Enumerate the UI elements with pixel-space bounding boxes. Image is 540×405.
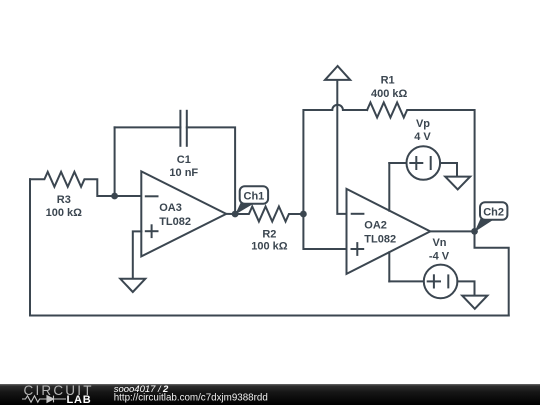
ground (OA3 non-inverting input)	[120, 279, 145, 292]
svg-text:100 kΩ: 100 kΩ	[46, 207, 83, 219]
op-amp OA2	[347, 189, 431, 274]
flag Ch1	[235, 186, 268, 214]
svg-text:OA3: OA3	[159, 202, 182, 214]
svg-text:OA2: OA2	[364, 220, 387, 232]
wire bottom	[30, 315, 509, 317]
footer bar	[0, 384, 540, 405]
node junction dot at OA3 inverting input	[111, 193, 118, 200]
svg-text:Vp: Vp	[416, 118, 430, 130]
wire OA2 top supply pin	[388, 163, 390, 211]
svg-text:-4 V: -4 V	[429, 251, 450, 263]
svg-text:Vn: Vn	[432, 237, 446, 249]
wire feedback up from node with hop over supply stem	[303, 105, 367, 214]
capacitor C1	[180, 111, 186, 146]
op-amp OA3	[141, 171, 226, 256]
wire to OA3 minus input	[115, 195, 142, 197]
svg-text:400 kΩ: 400 kΩ	[371, 88, 408, 100]
ground (Vp negative terminal)	[445, 177, 470, 190]
resistor R2	[235, 207, 303, 222]
svg-text:4 V: 4 V	[414, 131, 431, 143]
logo squiggle resistor	[22, 395, 45, 401]
wire OA3 plus input to ground	[133, 231, 142, 278]
wire to OA2 plus input	[303, 214, 346, 249]
svg-text:10 nF: 10 nF	[169, 167, 198, 179]
node junction dot after R2	[300, 211, 307, 218]
wire OA2 bottom supply pin	[388, 252, 390, 281]
wire right return to output node	[475, 231, 509, 315]
node Ch1 output dot	[232, 211, 239, 218]
svg-text:R2: R2	[262, 228, 276, 240]
svg-text:R1: R1	[381, 74, 395, 86]
svg-text:LAB: LAB	[67, 394, 92, 405]
svg-text:100 kΩ: 100 kΩ	[251, 240, 288, 252]
supply flag VCC arrow	[325, 66, 350, 214]
wire OA3 output	[226, 213, 235, 215]
svg-text:Ch2: Ch2	[483, 206, 504, 218]
ground (Vn negative terminal)	[462, 296, 487, 309]
voltage source Vn	[389, 265, 474, 299]
svg-text:TL082: TL082	[364, 234, 396, 246]
svg-text:R3: R3	[57, 194, 71, 206]
wire feedback loop left/top	[114, 127, 116, 196]
wire capacitor right plate to output	[187, 127, 235, 214]
node Ch2 output dot	[471, 228, 478, 235]
svg-text:Ch1: Ch1	[244, 191, 265, 203]
wire to capacitor left plate	[115, 126, 181, 128]
voltage source Vp	[389, 146, 457, 180]
svg-text:http://circuitlab.com/c7dxjm93: http://circuitlab.com/c7dxjm9388rdd	[114, 392, 268, 403]
svg-text:C1: C1	[177, 154, 191, 166]
logo diode	[45, 395, 66, 402]
wire OA2 output	[430, 230, 474, 232]
svg-text:TL082: TL082	[159, 216, 191, 228]
resistor R1	[367, 103, 475, 232]
wire left vertical	[29, 179, 31, 315]
resistor R3	[30, 172, 115, 196]
flag Ch2	[475, 202, 508, 232]
